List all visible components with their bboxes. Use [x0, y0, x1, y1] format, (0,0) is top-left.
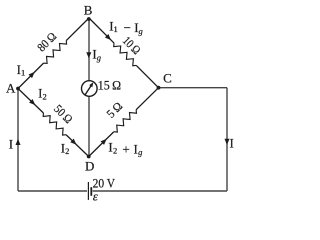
node A — [16, 87, 20, 91]
svg-text:ε: ε — [93, 189, 99, 204]
arrow I downward on right wire — [225, 139, 230, 145]
node B — [87, 17, 91, 21]
battery 20V plate short (negative) — [90, 187, 92, 196]
wire galvanometer to D — [88, 96, 90, 156]
svg-text:B: B — [84, 3, 93, 18]
wire right side down — [226, 88, 228, 191]
arrow I1 on A-B — [29, 72, 35, 78]
wire A-D lead from A — [18, 89, 43, 113]
wire B-C lead to C — [136, 65, 158, 87]
wire B-C lead from B — [89, 18, 114, 43]
wire D-C lead to C — [136, 88, 158, 110]
wire bottom battery to left — [18, 190, 87, 192]
wire D-C lead from D — [89, 132, 114, 157]
wire bottom right to battery — [93, 190, 227, 192]
galvanometer needle — [85, 84, 92, 95]
arrow I2+Ig on D-C — [101, 139, 107, 145]
node D — [87, 155, 91, 159]
svg-text:D: D — [85, 159, 94, 174]
svg-text:15 Ω: 15 Ω — [98, 78, 121, 93]
arrow Ig downward on B-D — [86, 52, 91, 58]
svg-text:C: C — [163, 70, 172, 85]
wire A-D lead to D — [66, 135, 89, 157]
wire C to top-right corner — [159, 87, 228, 89]
galvanometer G 15ohm: circle — [82, 81, 98, 97]
node C — [157, 86, 161, 90]
resistor 50ohm on branch A-D — [43, 113, 66, 135]
arrow I upward on left wire — [16, 139, 21, 145]
wire A-B lead to B — [66, 18, 89, 41]
wire B to galvanometer — [88, 18, 90, 81]
battery 20V plate long (positive) — [87, 182, 89, 200]
svg-text:A: A — [6, 80, 16, 95]
resistor 80ohm on branch A-B — [44, 41, 67, 64]
galvanometer needle arrowhead — [89, 82, 93, 87]
svg-text:I: I — [9, 136, 13, 151]
svg-text:I: I — [230, 136, 234, 151]
resistor 5ohm on branch D-C — [114, 110, 137, 132]
arrow I2 on A-D lower — [70, 139, 76, 145]
arrow I1-Ig on B-C — [105, 34, 111, 40]
resistor 10ohm on branch B-C — [114, 43, 137, 66]
wire left side up to A — [17, 89, 19, 192]
arrow I2 on A-D upper — [29, 99, 35, 105]
wire A-B lead from A — [18, 63, 44, 88]
